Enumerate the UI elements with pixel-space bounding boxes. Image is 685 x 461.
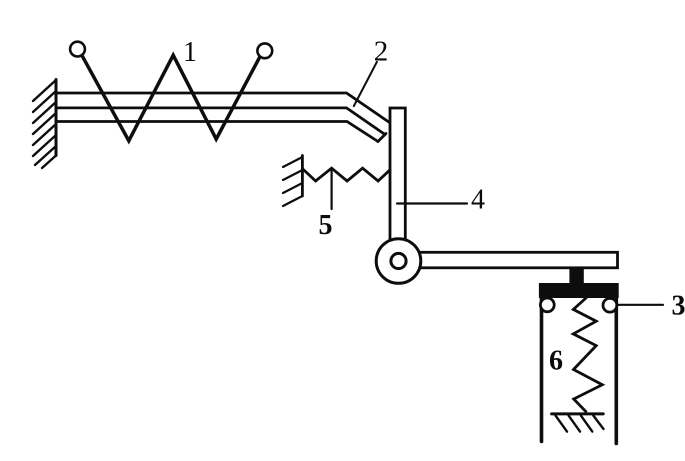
label 3 leader (616, 304, 663, 306)
svg-text:3: 3 (672, 291, 685, 322)
stem (black) (569, 267, 583, 285)
spring 1 (zig-zag with eye ends) (70, 42, 272, 141)
ground (hatched base inside box) (552, 414, 604, 432)
link (horizontal bar from pivot to slider) (405, 252, 618, 267)
leaf-spring bar 2 (bent member, three parallel lines) (56, 93, 390, 142)
svg-text:6: 6 (549, 346, 563, 377)
pivot joint (hinge circle) (376, 239, 421, 284)
label 2 leader (354, 62, 377, 106)
spring 5 (horizontal zig-zag) (302, 168, 390, 181)
wall (fixed support of spring 5) (283, 156, 302, 207)
label 4 leader (397, 202, 467, 204)
svg-text:1: 1 (183, 37, 197, 68)
svg-text:4: 4 (471, 185, 485, 216)
roller right (603, 298, 617, 312)
link 4 (vertical bar) (390, 108, 405, 253)
svg-text:2: 2 (374, 36, 389, 68)
spring 6 (vertical zig-zag) (573, 298, 602, 412)
box right wall (614, 299, 618, 444)
box left wall (540, 299, 544, 442)
label 5 leader (331, 169, 333, 210)
block 3 (black slider plate) (539, 283, 619, 298)
svg-text:5: 5 (319, 210, 333, 241)
wall (fixed support, top-left) (33, 80, 56, 169)
roller left (540, 298, 554, 312)
